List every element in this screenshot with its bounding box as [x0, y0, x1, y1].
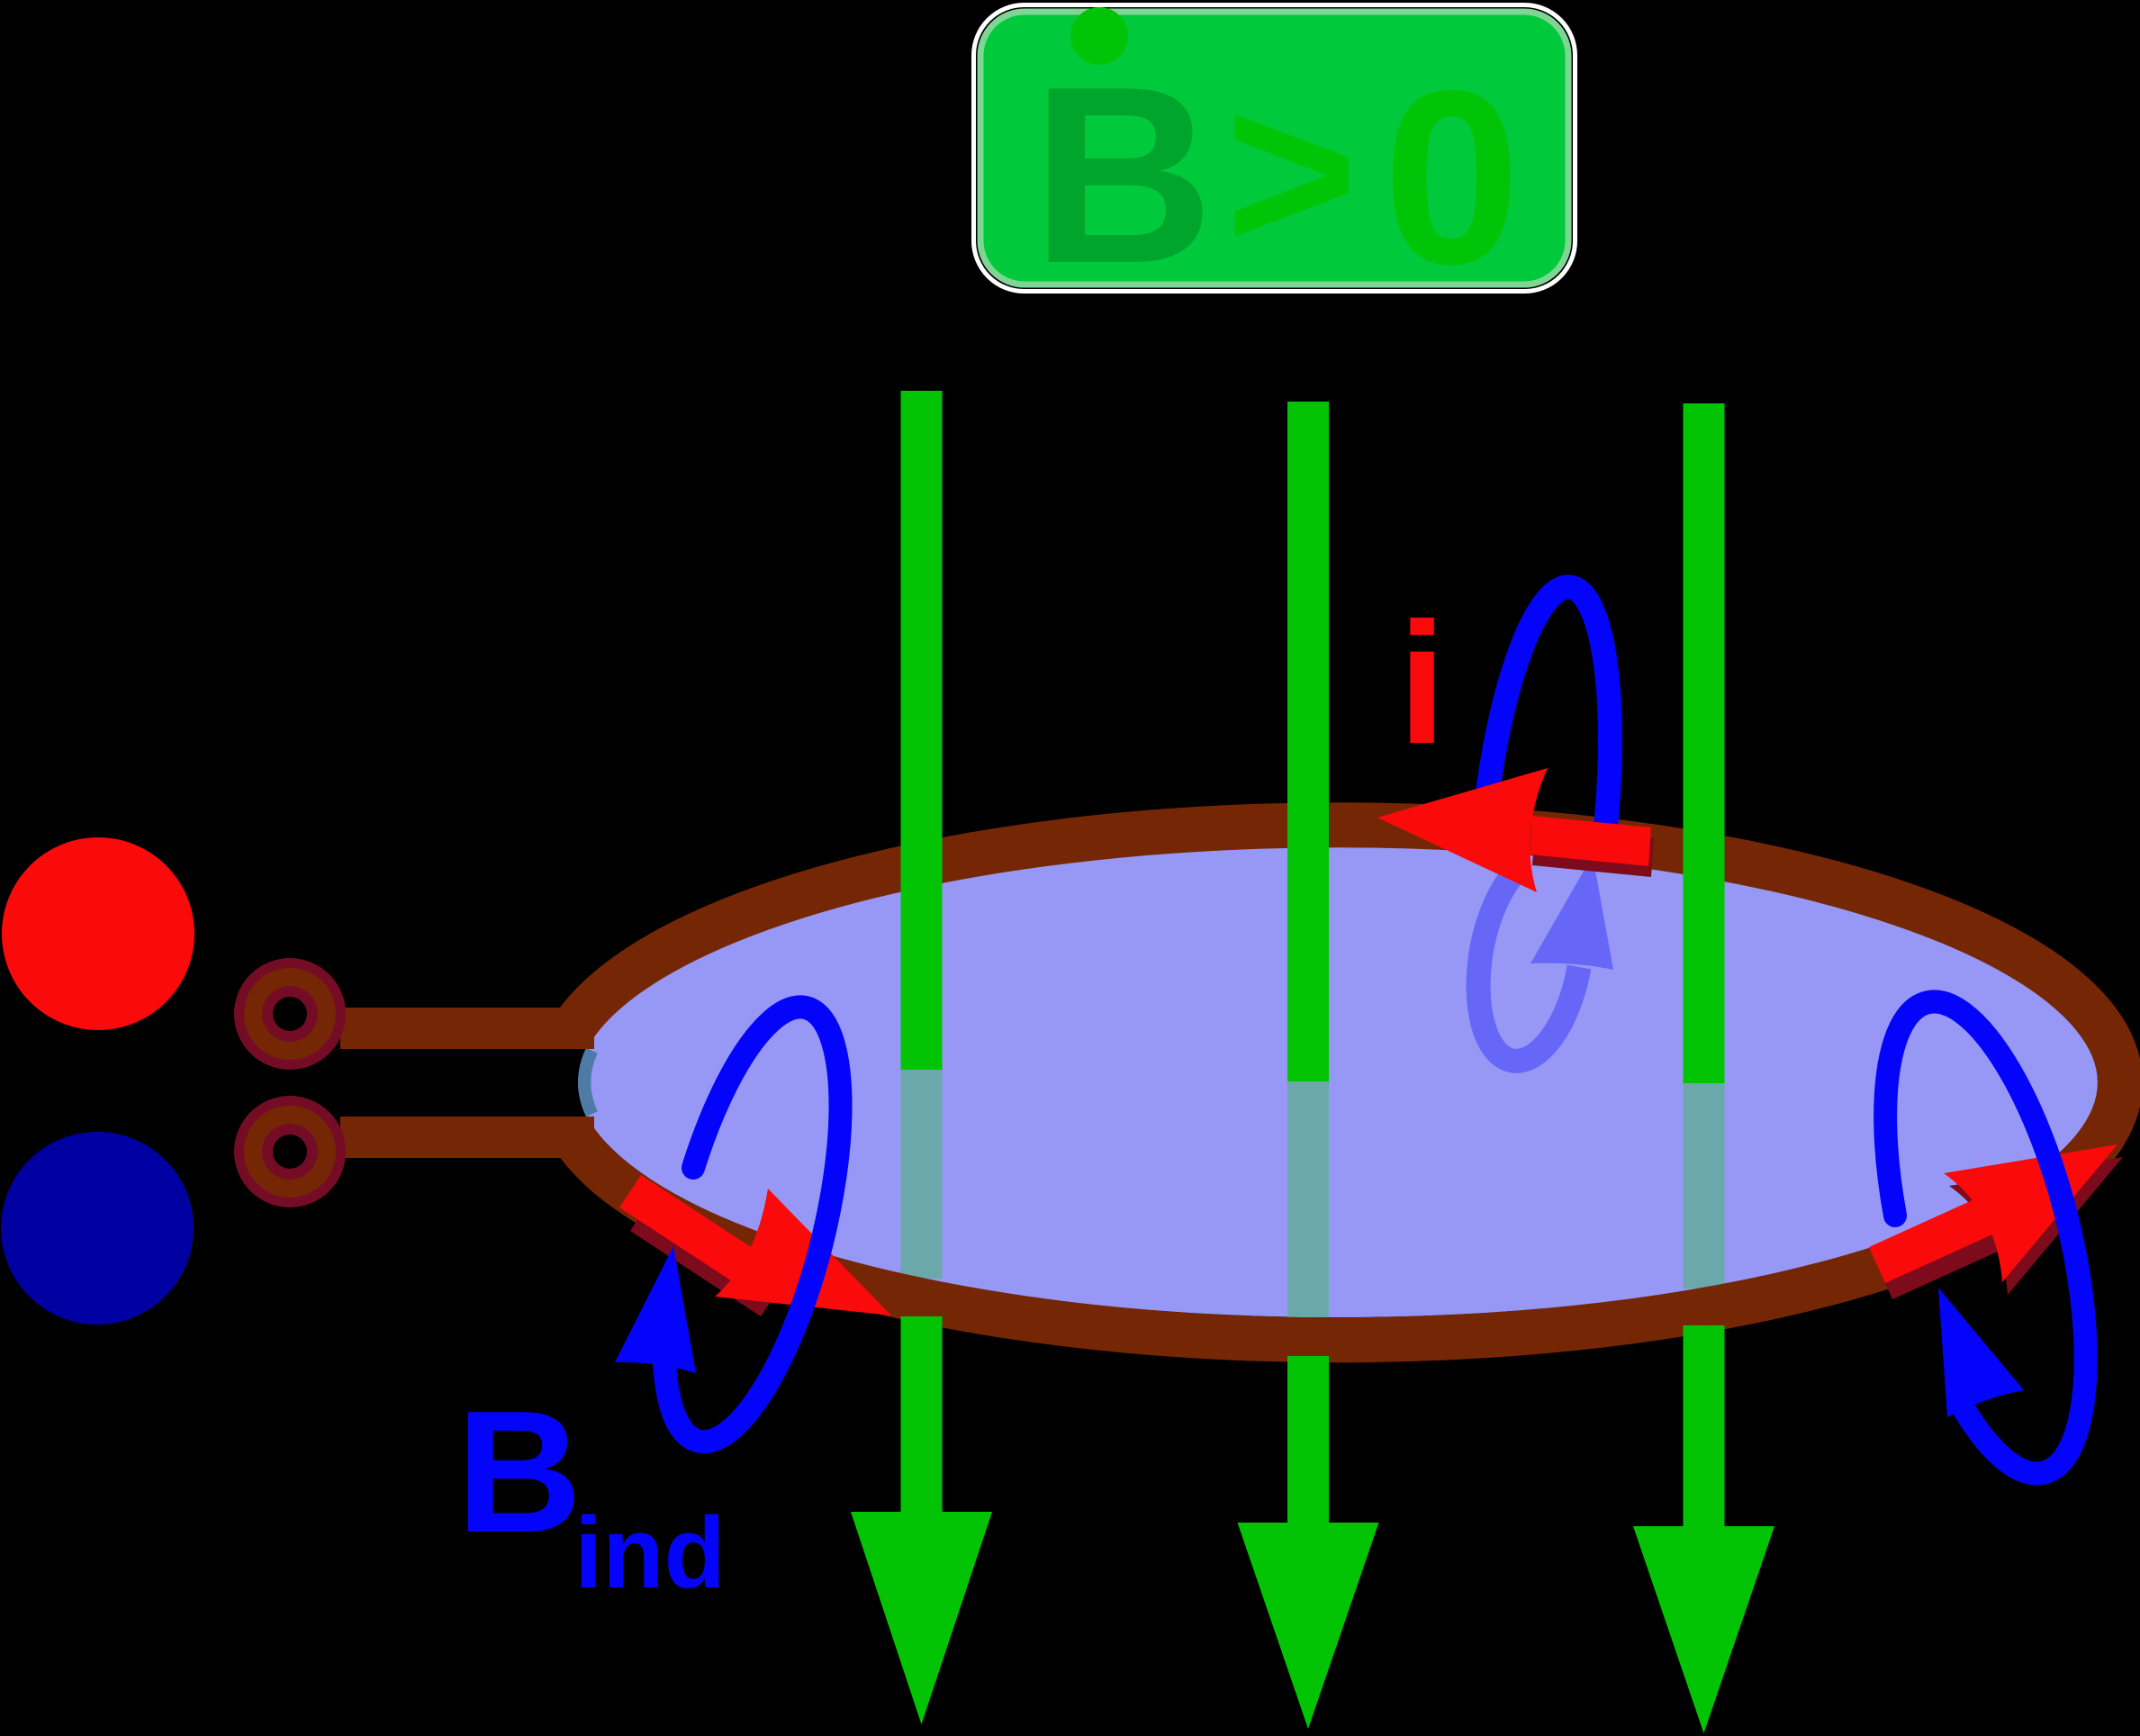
- field arrow 1 muted segment inside loop: [901, 1070, 943, 1279]
- svg-text:0: 0: [1383, 40, 1521, 316]
- field arrow 1 top segment: [901, 391, 943, 1070]
- field arrow 3 head: [1633, 1526, 1774, 1733]
- current arrow top: head: [1377, 768, 1548, 892]
- lead wire lower: [340, 1117, 594, 1158]
- field arrow 2 muted segment inside loop: [1287, 1081, 1329, 1317]
- terminal dot blue: [1, 1132, 194, 1325]
- B>0 label box: [974, 5, 1576, 292]
- current arrow bottom-right: head: [1944, 1144, 2117, 1282]
- label dot over B: [1070, 7, 1128, 65]
- svg-text:>: >: [1225, 46, 1358, 299]
- field arrow 2 top segment: [1287, 402, 1329, 1081]
- svg-text:B: B: [456, 1374, 582, 1569]
- field arrow 2 head: [1238, 1523, 1379, 1729]
- current arrow top: tail band: [1530, 816, 1651, 866]
- current arrow bottom-left: shadow: [630, 1198, 782, 1316]
- loop disc (lavender): [578, 847, 2098, 1317]
- field arrow 3 bottom segment: [1684, 1325, 1725, 1526]
- current arrow top: shadow: [1532, 827, 1654, 877]
- field arrow 1 bottom segment: [901, 1316, 943, 1512]
- current arrow bottom-right: tail band: [1869, 1198, 1992, 1283]
- current arrow bottom-right: head shadow: [1949, 1157, 2123, 1295]
- B_ind loop right: arrowhead: [1938, 1288, 2024, 1417]
- current arrow bottom-right: shadow: [1876, 1215, 2000, 1299]
- disc left edge arc (steel blue): [584, 1051, 591, 1115]
- svg-text:ind: ind: [574, 1496, 726, 1609]
- field arrow 2 bottom segment: [1287, 1356, 1329, 1523]
- B_ind loop top-right: faded arrowhead: [1531, 855, 1613, 970]
- current arrow bottom-left: tail band: [619, 1175, 772, 1293]
- terminal dot red: [2, 837, 194, 1030]
- field arrow 1 head: [851, 1512, 992, 1724]
- B_ind loop left: arc: [664, 1007, 840, 1442]
- field arrow 3 top segment: [1684, 403, 1725, 1083]
- terminal ring upper: [234, 958, 346, 1070]
- B_ind loop left: arrowhead: [615, 1246, 696, 1373]
- field arrow 3 muted segment inside loop: [1684, 1083, 1725, 1288]
- svg-text:i: i: [1398, 586, 1446, 780]
- terminal ring lower: [234, 1096, 346, 1207]
- B_ind loop top-right: faded inner arc: [1478, 863, 1579, 1061]
- lead wire upper: [340, 1008, 594, 1049]
- B_ind loop right: arc: [1885, 1001, 2086, 1473]
- B_ind loop top-right: bright outer arc: [1485, 587, 1610, 839]
- current arrow bottom-left: head: [715, 1189, 891, 1316]
- svg-text:B: B: [1032, 35, 1214, 316]
- conducting loop ring (brown): [573, 825, 2120, 1340]
